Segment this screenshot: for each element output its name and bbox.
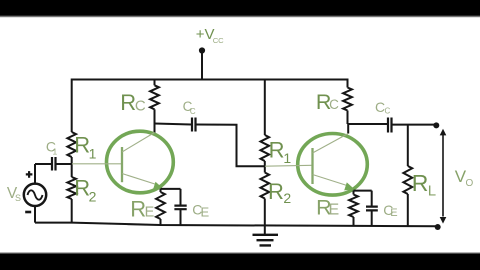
wire Q2 emitter node <box>354 190 372 192</box>
resistor R2 stage 1 <box>67 177 76 199</box>
capacitor Cc stage 1 <box>192 118 196 132</box>
transistor Q1 emitter arrow <box>153 182 163 190</box>
transistor Q2 base bar <box>311 148 313 184</box>
transistor Q2 collector lead <box>313 134 349 154</box>
ground symbol <box>253 235 279 246</box>
capacitor CE stage 2 <box>366 207 378 211</box>
wire Q1 emitter node <box>161 188 181 190</box>
svg-text:R: R <box>268 179 284 204</box>
wire RC to collector node stage 1 <box>154 109 156 133</box>
svg-text:1: 1 <box>53 146 58 156</box>
wire rail to R1 (stage 1) <box>71 79 73 133</box>
wire RC to collector node stage 2 <box>347 111 349 125</box>
svg-text:CC: CC <box>213 36 224 45</box>
svg-text:1: 1 <box>89 146 97 162</box>
transistor Q1 circle <box>106 131 173 193</box>
wire base node to R2 stage 1 <box>71 164 73 177</box>
svg-text:2: 2 <box>89 189 97 205</box>
wire input node to C1 <box>35 163 51 165</box>
svg-text:E: E <box>329 202 340 219</box>
wire CE branch stage 2 <box>371 191 373 206</box>
capacitor Cc stage 2 <box>388 118 392 133</box>
wire R2 to ground rail stage 1 <box>71 199 73 224</box>
wire Cc to stage 2 bias node <box>197 125 265 167</box>
transistor Q1 base bar <box>121 147 123 182</box>
wire collector node stage 2 to Q2 <box>347 124 349 134</box>
capacitor C1 <box>52 157 56 171</box>
resistor RC stage 2 <box>343 88 352 111</box>
resistor RE stage 1 <box>156 192 165 219</box>
transistor Q2 circle <box>298 134 368 196</box>
output node dot top <box>433 122 439 128</box>
output Vo arrow line <box>442 134 444 217</box>
ground stub <box>264 225 266 234</box>
svg-text:E: E <box>145 204 155 220</box>
plus polarity mark <box>26 171 33 178</box>
wire Vs top lead <box>34 164 36 184</box>
wire RL to ground rail <box>407 194 409 226</box>
wire emitter to RE stage 1 <box>160 189 162 192</box>
resistor R2 stage 2 <box>261 173 270 199</box>
minus polarity mark <box>25 211 31 214</box>
wire Vs bottom lead <box>34 206 36 222</box>
+Vcc node dot <box>199 47 205 53</box>
svg-text:R: R <box>269 137 285 162</box>
transistor Q2 emitter arrow <box>344 182 354 190</box>
svg-text:E: E <box>390 207 397 219</box>
wire rail to RC stage 2 <box>347 79 349 88</box>
transistor Q1 collector lead <box>122 133 155 153</box>
resistor R1 stage 1 <box>67 132 76 157</box>
wire rail to RC stage 1 <box>154 80 156 86</box>
wire collector node to Cc stage 2 <box>348 123 388 125</box>
transistor Q1 base lead <box>72 163 121 165</box>
wire RE to ground rail stage 1 <box>160 219 162 225</box>
resistor RL <box>403 166 412 194</box>
wire R2 to ground rail stage 2 <box>264 199 266 226</box>
transistor Q2 emitter lead <box>313 175 348 186</box>
wire C1 to base node stage 1 <box>57 163 72 165</box>
resistor RC stage 1 <box>150 85 159 109</box>
wire rail to R1 stage 2 <box>264 79 266 136</box>
resistor R1 stage 2 <box>261 135 270 161</box>
resistor RE stage 2 <box>349 195 358 218</box>
svg-text:L: L <box>428 183 436 200</box>
svg-text:C: C <box>190 107 196 116</box>
svg-text:2: 2 <box>283 190 291 206</box>
wire emitter to RE stage 2 <box>353 191 355 195</box>
svg-text:C: C <box>135 98 146 115</box>
capacitor CE stage 1 <box>174 206 186 210</box>
wire top supply rail <box>72 79 348 81</box>
output node dot bottom <box>435 224 441 230</box>
Vo arrowhead down <box>440 217 447 224</box>
source Vs circle <box>24 184 46 206</box>
wire Vcc to rail <box>201 52 203 80</box>
svg-text:1: 1 <box>283 150 291 166</box>
wire CE to ground rail stage 2 <box>371 211 373 226</box>
wire RE to ground rail stage 2 <box>353 217 355 226</box>
svg-text:+V: +V <box>196 26 215 43</box>
wire Cc stage 2 to output node <box>393 124 437 126</box>
svg-text:E: E <box>201 204 210 219</box>
wire collector node to Cc stage 1 <box>155 124 192 125</box>
transistor Q2 base lead <box>265 164 312 167</box>
wire ground rail <box>35 223 438 227</box>
source Vs sine <box>28 190 43 199</box>
svg-text:S: S <box>15 193 21 203</box>
wire R1 to base node stage 1 <box>71 157 73 164</box>
svg-text:R: R <box>120 90 136 115</box>
svg-text:C: C <box>385 107 391 116</box>
svg-text:R: R <box>412 170 429 196</box>
wire CE branch stage 1 <box>180 189 182 205</box>
Vo arrowhead up <box>440 129 447 136</box>
wire output to RL <box>407 125 409 166</box>
svg-text:O: O <box>466 178 474 189</box>
transistor Q1 emitter lead <box>122 174 156 185</box>
wire R1 to base node stage 2 <box>264 161 266 173</box>
wire CE to ground rail stage 1 <box>180 210 182 226</box>
svg-text:C: C <box>329 97 339 112</box>
